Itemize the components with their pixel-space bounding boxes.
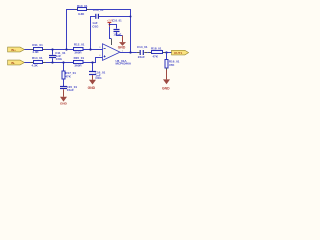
node top rail / C13 riser (89, 48, 91, 50)
resistor R17 (62, 63, 76, 80)
resistor R11 (31, 43, 46, 54)
wire R18 to OUT port (165, 52, 172, 54)
node C13 run / output riser (130, 16, 132, 18)
svg-text:R12_01: R12_01 (74, 42, 85, 46)
wire C13 to output riser (99, 16, 131, 18)
svg-text:15nF: 15nF (67, 88, 74, 92)
resistor R14 (31, 56, 46, 68)
wire R10 to output riser (90, 10, 131, 53)
ground under C15 (60, 97, 68, 106)
wire feedback R10 riser (67, 10, 78, 50)
svg-text:GND: GND (162, 87, 170, 91)
svg-text:C10_01: C10_01 (112, 19, 122, 23)
node bottom rail / C11 (51, 61, 53, 63)
port IN+ (8, 47, 25, 52)
wire top rail (46, 49, 103, 51)
svg-text:IN+: IN+ (11, 48, 16, 52)
svg-text:GND: GND (60, 102, 68, 106)
svg-text:4.3K: 4.3K (32, 64, 39, 68)
capacitor C16 (89, 63, 106, 81)
resistor R18 (149, 46, 165, 58)
svg-text:GND: GND (118, 46, 126, 50)
capacitor C14 (137, 45, 148, 59)
power +2V5 (107, 19, 114, 27)
resistor R16 (165, 53, 180, 69)
svg-text:360R: 360R (74, 63, 82, 67)
capacitor C13 feedback riser (91, 17, 96, 50)
op-amp U6 (99, 44, 132, 66)
svg-text:MCP6346A: MCP6346A (116, 62, 132, 66)
wire port IN- to R14 (24, 62, 33, 64)
svg-text:R14_01: R14_01 (32, 56, 43, 60)
svg-text:100nF: 100nF (113, 33, 121, 37)
ground near op-amp (118, 36, 126, 50)
wire R16 to ground (166, 68, 168, 70)
node R16 tap (165, 51, 167, 53)
svg-text:R11_01: R11_01 (32, 43, 43, 47)
svg-text:C0G: C0G (92, 25, 99, 29)
wire bottom rail (46, 58, 103, 63)
resistor R15 (74, 56, 85, 67)
svg-text:OUT1: OUT1 (174, 51, 183, 55)
svg-text:22nF: 22nF (138, 55, 145, 59)
wire op-amp output (120, 52, 137, 54)
svg-text:360R: 360R (74, 50, 82, 54)
node top rail / C11 (51, 48, 53, 50)
svg-text:4.3K: 4.3K (32, 50, 39, 54)
node bottom rail / R17 (62, 61, 64, 63)
svg-text:C0G: C0G (56, 57, 63, 61)
node top rail / R10 riser (65, 48, 67, 50)
svg-text:C0G: C0G (95, 76, 102, 80)
svg-text:R10_01: R10_01 (77, 4, 88, 8)
wire C14 to R18 (147, 52, 151, 54)
wire supply down to op-amp (110, 27, 112, 39)
svg-text:GND: GND (88, 86, 96, 90)
node output / feedback (129, 51, 131, 53)
capacitor C15 (60, 79, 77, 97)
capacitor C11 (49, 50, 66, 63)
capacitor C13 (92, 8, 104, 28)
port IN- (8, 60, 25, 65)
svg-text:C14_01: C14_01 (137, 45, 148, 49)
node bottom rail / C16 (91, 61, 93, 63)
wire port IN+ to R11 (24, 49, 33, 51)
svg-text:R18_01: R18_01 (151, 46, 162, 50)
ground under C16 (88, 80, 96, 90)
ground under R16 (162, 79, 170, 90)
port OUT (172, 50, 189, 55)
svg-text:3.3K: 3.3K (78, 12, 85, 16)
resistor R12 (74, 42, 85, 54)
op-amp V+ pin stub (111, 39, 113, 45)
svg-text:47K: 47K (65, 75, 71, 79)
svg-text:47K: 47K (153, 54, 159, 58)
svg-text:IN-: IN- (11, 61, 15, 65)
svg-text:R15_01: R15_01 (74, 56, 85, 60)
svg-text:C13_01: C13_01 (93, 8, 104, 12)
svg-text:47K: 47K (169, 63, 175, 67)
capacitor C10 (109, 19, 123, 37)
resistor R10 (75, 4, 90, 16)
